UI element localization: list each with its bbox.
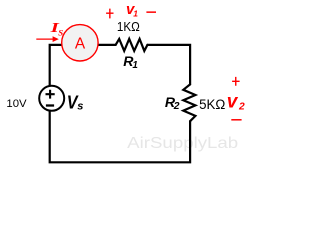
svg-text:S: S <box>58 27 63 37</box>
voltage source VS circle <box>39 86 64 111</box>
svg-text:v: v <box>227 92 239 113</box>
current arrow Is <box>36 38 53 40</box>
svg-text:1: 1 <box>132 60 138 71</box>
source minus sign <box>46 104 54 106</box>
label plus of v2 <box>232 77 240 86</box>
svg-text:A: A <box>75 36 86 53</box>
svg-text:10V: 10V <box>6 98 27 110</box>
svg-text:5KΩ: 5KΩ <box>199 97 225 113</box>
source plus sign <box>46 90 55 99</box>
svg-text:AirSupplyLab: AirSupplyLab <box>127 134 238 152</box>
wire: R1 to top-right corner down to R2 top lead <box>147 45 190 85</box>
wire: source top, left corner, into ammeter and on to R1 lead <box>50 45 116 86</box>
label minus of v1 <box>146 11 156 13</box>
label minus of v2 <box>231 119 241 121</box>
resistor R1 zigzag <box>116 39 148 51</box>
label plus of v1 <box>106 9 113 19</box>
svg-text:1KΩ: 1KΩ <box>117 19 140 34</box>
resistor R2 zigzag <box>183 84 195 121</box>
wire: R2 bottom lead, bottom-right corner, bottom run, up to source bottom <box>50 110 190 162</box>
ammeter U1 circle <box>62 25 98 61</box>
svg-text:2: 2 <box>238 101 245 112</box>
svg-text:2: 2 <box>173 101 180 112</box>
svg-text:s: s <box>77 101 83 113</box>
svg-text:1: 1 <box>133 8 138 18</box>
